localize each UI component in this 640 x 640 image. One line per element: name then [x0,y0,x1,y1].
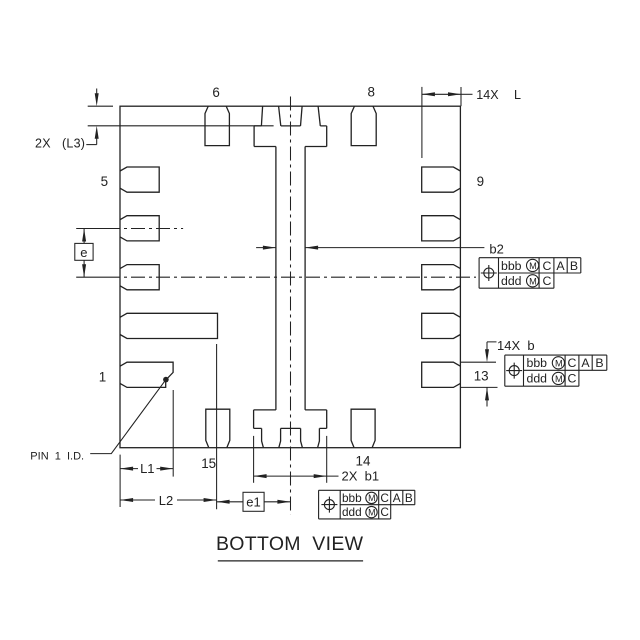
dim 2X (L3): L3 extension line [88,125,274,127]
feature control frame bottom [319,490,415,519]
thermal pad wide bottom section [254,409,327,411]
arrow L3 down [95,93,99,106]
arrow e1 left [217,500,230,504]
svg-text:e: e [80,245,87,260]
svg-text:C: C [380,491,389,505]
svg-text:A: A [393,491,401,505]
thermal pad center bar [276,147,305,410]
arrow b1 right [314,474,327,478]
pin 1 I.D. leader [90,380,166,454]
svg-text:A: A [581,356,590,370]
svg-text:ddd: ddd [501,274,522,288]
pad 12 (right row4) [422,313,461,338]
arrow e up [82,229,86,242]
svg-text:9: 9 [477,174,484,189]
svg-text:ddd: ddd [342,505,362,519]
dim e: arrows line [83,229,85,278]
svg-text:bbb: bbb [342,491,362,505]
svg-text:B: B [570,259,578,273]
arrow b up [485,387,489,400]
arrow b2 right [263,246,276,250]
pad 9 (right row1) [422,167,461,192]
arrow b2 left [305,246,318,250]
thermal pad bottom tab B [301,428,320,447]
pad 6 (top) [205,106,229,145]
thermal pad finger A (top-left) [261,106,262,126]
svg-text:13: 13 [474,369,489,384]
pad 1 (left row5, chamfered corner) [120,362,173,387]
svg-text:14X: 14X [476,88,499,102]
pad 13 (right row5) [422,362,461,387]
dim L2: dimension line [120,499,217,501]
package outline [120,106,460,448]
svg-text:e1: e1 [246,495,260,510]
svg-text:M: M [368,493,375,503]
horizontal centerline row2 [76,228,106,230]
svg-text:B: B [595,356,603,370]
arrow e down [82,264,86,277]
svg-text:bbb: bbb [501,259,522,273]
svg-text:2X (L3): 2X (L3) [35,137,85,151]
pad 14 (bottom) [351,409,375,448]
svg-text:14: 14 [356,454,371,469]
long pad extension line [216,344,218,509]
dim e1: box [243,492,264,511]
svg-text:ddd: ddd [527,372,548,386]
svg-text:2X b1: 2X b1 [342,468,380,483]
dim 2X (L3): top edge stub [88,105,113,107]
dim 14X L: extension lines [421,87,423,158]
svg-text:M: M [368,507,375,517]
pad 2 (left row4 long) [120,313,218,338]
arrow L1 left [120,467,133,471]
arrow L3 up [95,126,99,139]
pad 5 (left row1) [120,167,159,192]
svg-text:M: M [555,358,563,368]
dim e: box [75,243,93,260]
arrowheads [82,92,489,504]
svg-text:C: C [567,356,576,370]
svg-text:5: 5 [101,174,108,189]
arrow b1 left [254,474,267,478]
pad 11 (right row3) [422,265,461,290]
svg-text:6: 6 [212,85,219,100]
arrow L2 left [120,498,133,502]
svg-text:A: A [556,259,565,273]
svg-text:bbb: bbb [527,356,548,370]
pad 15 (bottom) [206,409,230,448]
dim 2X b1: extension lines [253,436,255,483]
dim 14X b: leader bracket [487,342,497,352]
svg-text:b2: b2 [489,241,503,256]
vertical centerline [290,97,292,515]
dim L1: extension lines [119,455,121,507]
pad 4 (left row2) [120,216,159,241]
svg-text:L2: L2 [159,493,173,508]
feature control frame lower-right [505,355,607,386]
svg-text:L: L [514,88,521,102]
pad 3 (left row3) [120,265,159,290]
feature control frame right-middle [479,258,581,289]
arrow b down [485,349,489,362]
svg-text:BOTTOM VIEW: BOTTOM VIEW [216,533,364,555]
dim 14X L: dimension line [422,93,461,95]
thermal pad bottom tab A [262,428,281,447]
svg-text:L1: L1 [140,461,154,476]
dim b2: dimension lines [256,247,276,249]
dim 14X b: extension lines [461,361,496,363]
title underline [218,560,363,562]
svg-text:C: C [380,505,389,519]
svg-text:M: M [529,276,537,286]
svg-text:1: 1 [99,370,106,385]
pin 1 I.D. dot [163,377,169,383]
dim 2X (L3): arrows [96,89,98,96]
arrow e1 right [277,500,290,504]
svg-text:8: 8 [367,85,374,100]
svg-text:M: M [529,261,537,271]
dim e1: dimension lines [217,501,291,503]
svg-text:C: C [542,274,551,288]
svg-text:15: 15 [201,456,216,471]
svg-text:C: C [567,372,576,386]
thermal pad wide top section [254,125,327,127]
thermal pad finger B (top-right) [301,106,303,126]
pad 10 (right row2) [422,216,461,241]
svg-text:B: B [405,491,413,505]
svg-text:M: M [555,374,563,384]
pad 8 (top) [351,106,376,145]
svg-text:PIN 1 I.D.: PIN 1 I.D. [30,450,84,462]
dim 2X b1: dimension line [254,475,339,477]
dim L1: dimension line [120,468,173,470]
svg-text:C: C [542,259,551,273]
arrow L2 right [204,498,217,502]
arrow L1 right [160,467,173,471]
arrow 14XL left [422,92,435,96]
svg-text:14X b: 14X b [497,338,535,353]
arrow 14XL right [448,92,461,96]
horizontal centerline row3 [76,276,106,278]
